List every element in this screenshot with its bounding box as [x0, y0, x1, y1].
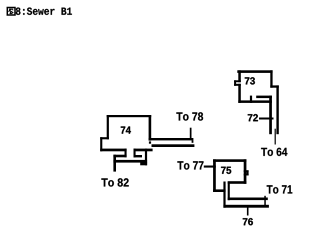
label corridor number 72 [248, 114, 258, 121]
room 74 right wall [149, 115, 152, 141]
corridor to 78 top wall [149, 138, 194, 140]
room 75 left wall [213, 159, 216, 192]
room 74 lower nub [140, 162, 147, 165]
room 74 bottom wall left [100, 149, 126, 152]
room 74 left bracket vertical [125, 149, 127, 158]
room 75 bump step bottom [244, 174, 249, 176]
label room number 73 [245, 77, 255, 84]
title glyph tu (CJK box character) [7, 8, 15, 16]
corridor to 71 top wall [228, 198, 268, 201]
tick to label To 64 [275, 129, 276, 145]
room 73 shelf [256, 96, 272, 99]
room 75 door outer vertical [223, 182, 225, 208]
label label To 77 [177, 161, 203, 169]
room 73 bump top [234, 80, 241, 82]
room 75 door inner vertical [228, 182, 230, 201]
tick to label To 78 [190, 128, 192, 138]
room 75 top wall [213, 159, 246, 162]
label label To 71 [267, 185, 293, 193]
label room number 74 [121, 127, 131, 134]
corridor to 71 bottom wall [223, 205, 269, 208]
room 73 door vertical [250, 96, 252, 103]
label corridor number 76 [243, 218, 253, 225]
room 75 bottom wall left [213, 189, 226, 192]
room 75 bump right [247, 170, 249, 175]
label title text 8:Sewer B1 [16, 8, 72, 15]
tick to label To 71 [264, 196, 266, 208]
dash from label To 77 [204, 166, 216, 168]
room 74 right shelf [134, 155, 143, 157]
room 74 stub toward 82 [113, 155, 116, 172]
dash from label 72 [259, 118, 274, 120]
room 74 bump left wall [100, 137, 102, 151]
label label To 82 [101, 178, 128, 186]
room 74 top wall [107, 115, 152, 117]
room 73 left wall lower [238, 84, 241, 103]
room 73 bump left [234, 80, 236, 86]
room 74 left shelf [113, 155, 126, 158]
room 75 bump step top [244, 170, 249, 172]
corridor to 64 left wall [269, 96, 272, 135]
room 73 left wall upper [238, 70, 241, 82]
room 74 door dot [149, 141, 151, 143]
room 74 right bracket vertical [134, 149, 136, 158]
room 74 bottom wall right [134, 149, 153, 152]
label room number 75 [221, 167, 231, 174]
room 73 bump bottom [234, 84, 241, 86]
label label To 78 [176, 112, 203, 120]
room 74 left wall [107, 115, 109, 139]
room 75 bottom wall right [228, 181, 247, 184]
room 74 bump top [100, 137, 109, 139]
tick to label 76 [247, 206, 249, 216]
corridor to 78 bottom wall [152, 144, 195, 147]
room 75 right wall [244, 159, 247, 184]
room 73 right wall [270, 70, 272, 87]
corridor to 64 right wall [276, 85, 278, 134]
room 73 bottom wall [238, 100, 272, 103]
room 74 right step vertical [145, 149, 147, 166]
corridor to 78 end nub [192, 140, 194, 143]
label label To 64 [261, 148, 287, 156]
room 74 long lower line [113, 160, 147, 163]
room 73 step right [270, 85, 279, 87]
room 73 top wall [237, 70, 272, 73]
